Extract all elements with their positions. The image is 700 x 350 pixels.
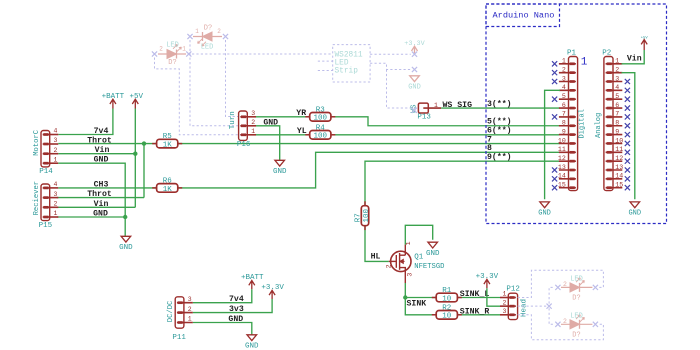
svg-text:13: 13 (615, 164, 623, 171)
svg-text:3: 3 (406, 273, 413, 277)
svg-text:Reciever: Reciever (33, 181, 41, 216)
svg-text:2: 2 (54, 147, 58, 154)
wire net GND Arduino P1.4 to ground (545, 90, 560, 199)
wire net Vin P15.2 (58, 206, 135, 208)
svg-text:6(**): 6(**) (487, 126, 512, 136)
power +5V (129, 93, 143, 109)
node X mid head (faded) (547, 304, 552, 309)
svg-text:R4: R4 (316, 124, 326, 132)
airwire WS2811 to GND and P13 (dashed) (370, 63, 417, 108)
wire net 5 R3 to Arduino P1.8 (330, 117, 560, 126)
svg-text:3: 3 (503, 308, 507, 315)
svg-text:1: 1 (182, 46, 186, 53)
diode D? lower-left LED (faded) (152, 42, 192, 68)
svg-text:Vin: Vin (95, 145, 110, 155)
wire net SINK_R R2 to P12.3 (455, 314, 500, 316)
ground GND (faded, unconnected) (408, 67, 421, 91)
svg-text:10: 10 (442, 313, 452, 321)
svg-text:9: 9 (615, 128, 619, 135)
wire net YL P16.1 to R4 (256, 134, 310, 136)
svg-text:R6: R6 (163, 178, 173, 186)
ground GND below P2 (628, 202, 641, 218)
svg-text:100: 100 (314, 133, 328, 141)
svg-text:7: 7 (487, 135, 492, 144)
svg-text:2: 2 (217, 28, 221, 35)
svg-text:11: 11 (558, 146, 566, 153)
svg-text:D?: D? (572, 295, 580, 303)
ground GND below P1 (538, 202, 551, 218)
wire net 6 R4 to Arduino P1.9 (330, 134, 560, 136)
airwire WS2811 stub a (dashed) (318, 60, 333, 62)
svg-text:+5V: +5V (129, 93, 143, 101)
wire net SINK_L R1 to P12.1 (455, 297, 500, 299)
svg-text:P11: P11 (172, 334, 186, 342)
svg-text:SINK_R: SINK_R (460, 308, 490, 317)
junction GND left (123, 215, 127, 219)
module Arduino Nano box (486, 4, 667, 224)
svg-text:3: 3 (562, 75, 566, 82)
connector P14 MotorC (33, 128, 59, 177)
wire net SINK to R2 (405, 298, 436, 315)
svg-text:LED: LED (166, 42, 179, 50)
svg-text:2: 2 (386, 264, 393, 268)
svg-text:P12: P12 (506, 286, 520, 294)
wire net 3v3 P11.2 to +3.3V (193, 299, 272, 313)
svg-text:1: 1 (581, 57, 588, 69)
svg-text:Digital: Digital (579, 109, 587, 138)
airwire P12.1 to upper head LED (dashed) (518, 270, 604, 297)
wire net Vin P14.2 (58, 153, 135, 155)
svg-text:5: 5 (615, 93, 619, 100)
resistor R6 (152, 178, 182, 194)
connector P13 WS (410, 102, 441, 121)
svg-text:NFETSGD: NFETSGD (414, 263, 444, 271)
svg-text:R2: R2 (442, 304, 451, 312)
svg-text:GND: GND (273, 168, 287, 176)
svg-text:4: 4 (615, 84, 619, 91)
svg-text:1K: 1K (163, 186, 173, 194)
svg-text:6: 6 (562, 102, 566, 109)
svg-text:LED: LED (201, 44, 214, 52)
svg-text:4: 4 (54, 128, 58, 135)
svg-text:9: 9 (562, 128, 566, 135)
svg-text:Turn: Turn (229, 111, 237, 129)
airwire P12.3 to lower head LED (dashed) (518, 315, 604, 340)
wire net 7 R5 to Arduino P1.10 (178, 143, 560, 145)
svg-text:3: 3 (615, 75, 619, 82)
resistor R1 (432, 287, 462, 303)
svg-text:P15: P15 (39, 222, 53, 230)
power +3.3V at P11 (261, 284, 284, 299)
airwire P12.2 to head LEDs (dashed) (518, 287, 555, 324)
svg-text:10: 10 (615, 137, 623, 144)
diode LED lower head (faded) (555, 312, 598, 339)
power +BATT at P11 (241, 274, 264, 289)
resistor R3 (305, 106, 335, 122)
wire net GND P16.2 to ground (256, 126, 280, 161)
svg-text:GND: GND (538, 210, 551, 218)
svg-text:GND: GND (628, 210, 641, 218)
wire net SINK to R1 (405, 297, 436, 299)
svg-text:R3: R3 (316, 106, 326, 114)
svg-text:LED: LED (570, 276, 583, 284)
wire net GND Q1 drain to ground (405, 225, 432, 244)
svg-text:1: 1 (195, 28, 199, 35)
connector P11 DC/DC (167, 296, 193, 342)
ground GND below P15 (119, 236, 133, 252)
svg-text:Analog: Analog (595, 113, 603, 138)
svg-text:14: 14 (615, 173, 623, 180)
ground GND below P11 (245, 335, 259, 350)
svg-text:R1: R1 (442, 287, 452, 295)
connector P1 Digital header (552, 49, 587, 190)
svg-text:GND: GND (119, 244, 133, 252)
svg-text:8: 8 (615, 120, 619, 127)
svg-text:1K: 1K (163, 142, 173, 150)
wire net 9 Arduino P1.12 to R7 (365, 161, 560, 206)
connector P16 Turn (229, 110, 256, 149)
svg-text:R7: R7 (354, 213, 362, 222)
airwire WS2811 to +3.3V (dashed) (370, 53, 411, 55)
resistor R5 (152, 133, 182, 149)
svg-text:LED: LED (335, 60, 349, 68)
svg-text:Throt: Throt (87, 189, 112, 199)
power +3.3V (faded, unconnected) (404, 40, 425, 57)
svg-text:LED: LED (570, 312, 583, 320)
svg-text:1: 1 (251, 128, 255, 135)
wire net GND P2.2 to ground (622, 73, 635, 200)
svg-text:4: 4 (54, 181, 58, 188)
power +5V mini at P2 (641, 36, 649, 50)
wire net GND P14.1 to P15.1 to ground (57, 163, 125, 236)
svg-text:GND: GND (93, 210, 108, 219)
svg-text:3(**): 3(**) (487, 99, 512, 109)
svg-text:2: 2 (563, 318, 567, 325)
ground GND below P16 (273, 160, 287, 176)
svg-text:1: 1 (54, 210, 58, 217)
svg-text:7v4: 7v4 (94, 127, 109, 136)
svg-text:Vin: Vin (94, 199, 109, 209)
resistor R4 (305, 124, 335, 140)
wire net 7v4 P11.3 to +BATT (193, 289, 252, 302)
svg-text:3: 3 (188, 296, 192, 303)
airwire upper LED pin2 to P16 pin3 (dashed) (226, 40, 247, 117)
svg-text:D?: D? (572, 331, 580, 339)
resistor R2 (432, 304, 462, 320)
svg-text:Vin: Vin (627, 54, 642, 64)
svg-text:3: 3 (251, 110, 255, 117)
svg-text:2: 2 (251, 119, 255, 126)
svg-text:P1: P1 (567, 49, 577, 57)
airwire upper LED pin1 to P16 pin2 (dashed) (190, 40, 246, 126)
svg-text:2: 2 (54, 201, 58, 208)
svg-text:Q1: Q1 (414, 253, 424, 261)
svg-text:5: 5 (562, 93, 566, 100)
wire net 3 WS_SIG to Arduino P1.6 (441, 107, 559, 109)
wire net Throt junction to P15.3 (57, 144, 144, 198)
svg-text:8: 8 (487, 144, 492, 153)
svg-text:12: 12 (615, 155, 623, 162)
svg-text:3: 3 (54, 137, 58, 144)
svg-text:12: 12 (558, 155, 566, 162)
svg-text:SINK_L: SINK_L (460, 290, 490, 299)
svg-text:5(**): 5(**) (487, 117, 512, 127)
airwire lower LED pin2 to P16 pin1 (dashed) (155, 58, 247, 135)
wire net Throt P14.3 to R5 (58, 143, 156, 145)
ground GND at Q1 (426, 242, 440, 258)
svg-text:7v4: 7v4 (229, 295, 244, 304)
svg-text:Strip: Strip (335, 68, 359, 76)
svg-text:GND: GND (426, 250, 440, 258)
resistor R7 (354, 201, 370, 230)
svg-text:1: 1 (54, 156, 58, 163)
svg-text:4: 4 (562, 84, 566, 91)
svg-text:11: 11 (615, 146, 623, 153)
svg-text:9(**): 9(**) (487, 152, 512, 162)
wire net Vin +5V drop to P15.2 (134, 109, 136, 208)
junction Throt (142, 141, 146, 145)
svg-text:15: 15 (558, 182, 566, 189)
connector P15 Reciever (33, 181, 58, 230)
svg-text:13: 13 (558, 164, 566, 171)
wire net SINK Q1 source down (404, 283, 406, 298)
svg-text:7: 7 (615, 111, 619, 118)
svg-text:8: 8 (562, 120, 566, 127)
svg-text:Arduino Nano: Arduino Nano (493, 10, 555, 20)
airwire WS2811 stub b (dashed) (318, 70, 333, 72)
svg-text:100: 100 (314, 115, 328, 123)
svg-text:15: 15 (615, 182, 623, 189)
diode LED upper head (faded) (555, 276, 598, 303)
wire net 7v4 P14.4 to +BATT (58, 109, 113, 135)
wire net YR P16.3 to R3 (256, 116, 310, 118)
svg-text:P13: P13 (417, 114, 431, 122)
svg-text:3v3: 3v3 (229, 305, 244, 314)
svg-text:P14: P14 (39, 168, 53, 176)
wire net +3.3V to P12.2 (487, 288, 500, 306)
junction Vin (133, 152, 137, 156)
power +3.3V at P12 (476, 273, 499, 288)
wire net Vin P2.1 to +5V (622, 50, 645, 64)
svg-text:3: 3 (54, 191, 58, 198)
wire net 8 R6 to Arduino P1.11 (178, 152, 560, 188)
svg-text:2: 2 (615, 66, 619, 73)
svg-text:P16: P16 (237, 141, 251, 149)
wire net CH3 P15.4 to R6 (58, 187, 156, 189)
svg-text:100: 100 (363, 208, 371, 222)
svg-text:10: 10 (558, 137, 566, 144)
svg-text:2: 2 (562, 66, 566, 73)
svg-text:GND: GND (245, 342, 259, 350)
svg-text:WS2811: WS2811 (335, 52, 363, 60)
svg-text:D?: D? (204, 25, 212, 33)
svg-text:1: 1 (562, 58, 566, 65)
svg-text:2: 2 (503, 299, 507, 306)
power +BATT (102, 93, 125, 109)
connector P12 Head (500, 286, 528, 320)
svg-text:P2: P2 (602, 49, 611, 57)
svg-text:D?: D? (168, 59, 176, 67)
svg-text:6: 6 (615, 102, 619, 109)
module WS2811 LED Strip (faded box) (333, 45, 370, 82)
module label Arduino Nano (486, 4, 560, 27)
svg-text:DC/DC: DC/DC (167, 300, 175, 322)
svg-text:2: 2 (188, 306, 192, 313)
svg-text:1: 1 (615, 58, 619, 65)
svg-text:R5: R5 (163, 133, 173, 141)
diode D? upper-left LED (faded) (187, 25, 228, 52)
svg-text:7: 7 (562, 111, 566, 118)
svg-text:2: 2 (159, 46, 163, 53)
svg-text:10: 10 (442, 295, 452, 303)
svg-text:GND: GND (408, 83, 421, 91)
wire net HL R7 to Q1 gate (365, 226, 389, 262)
svg-text:2: 2 (563, 281, 567, 288)
wire net GND P11.1 to ground (193, 323, 252, 335)
svg-text:1: 1 (434, 102, 438, 109)
transistor Q1 NFETSGD (386, 241, 445, 283)
connector P2 Analog header (595, 49, 630, 190)
svg-text:GND: GND (228, 315, 243, 324)
svg-text:MotorC: MotorC (33, 129, 41, 156)
svg-text:HL: HL (371, 253, 381, 262)
junction SINK (403, 295, 407, 299)
svg-text:WS: WS (410, 105, 418, 113)
svg-text:SINK: SINK (407, 300, 427, 309)
svg-text:14: 14 (558, 173, 566, 180)
svg-text:Head: Head (520, 299, 528, 317)
airwire lower LED pin1 to WS2811 strip (dashed) (192, 53, 333, 55)
svg-text:1: 1 (188, 316, 192, 323)
